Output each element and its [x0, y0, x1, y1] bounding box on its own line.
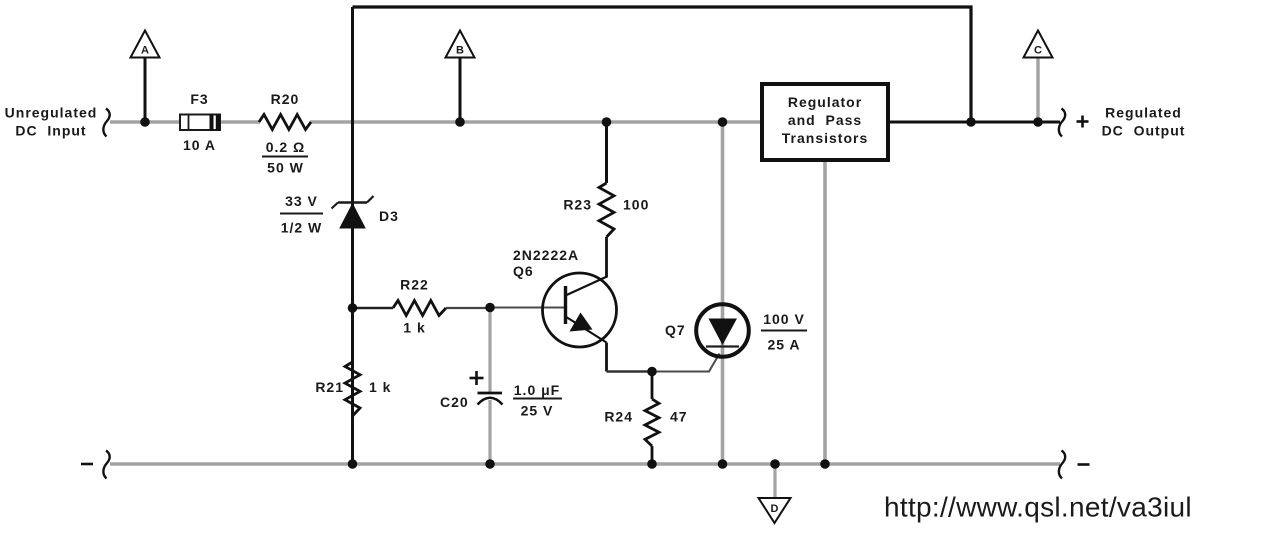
wire: node B drop to positive rail: [459, 57, 462, 122]
svg-text:R23: R23: [563, 197, 592, 213]
svg-text:F3: F3: [190, 91, 208, 107]
svg-text:47: 47: [670, 409, 688, 425]
junction: feedback loop at output: [966, 117, 976, 127]
zener diode D3: [332, 196, 374, 228]
svg-text:Q6: Q6: [513, 263, 534, 279]
svg-text:Regulator: Regulator: [788, 94, 862, 110]
wire: unregulated input rail (gray) from input connector to fuse: [110, 120, 180, 124]
svg-text:R20: R20: [271, 91, 300, 107]
bottom-left break symbol: [103, 451, 109, 479]
regulator block U: Regulator and Pass Transistors: [762, 84, 888, 160]
svg-text:1 k: 1 k: [369, 379, 391, 395]
junction: C20 bottom on negative rail: [485, 459, 495, 469]
junction: SCR cathode on negative rail: [718, 459, 728, 469]
svg-text:DC Input: DC Input: [15, 123, 86, 139]
svg-text:25 A: 25 A: [767, 337, 800, 353]
node B flag: [446, 31, 475, 58]
wire: positive rail to R23: [605, 122, 608, 183]
label: Regulated DC Output: [1102, 105, 1186, 139]
svg-text:1.0 μF: 1.0 μF: [514, 382, 560, 398]
wire: SCR anode/cathode vertical from positive rail to negative rail (gray): [721, 122, 725, 464]
wire: node C drop to output rail (gray): [1036, 58, 1039, 122]
wire: emitter node to R24: [651, 372, 654, 400]
svg-text:100: 100: [623, 197, 649, 213]
wire: fuse to R20 (gray): [220, 120, 260, 124]
wire: main positive rail R20 to regulator box (gray): [310, 120, 762, 124]
svg-text:C20: C20: [440, 394, 469, 410]
svg-text:2N2222A: 2N2222A: [513, 247, 579, 263]
junction: R24 bottom on negative rail: [647, 459, 657, 469]
junction: emitter/R24/gate node: [647, 367, 657, 377]
output break symbol: [1059, 109, 1065, 137]
svg-text:50 W: 50 W: [267, 160, 304, 176]
svg-text:and Pass: and Pass: [788, 112, 862, 128]
svg-text:B: B: [456, 45, 464, 57]
resistor R24: [645, 399, 659, 446]
resistor R23: [599, 183, 614, 237]
svg-text:Transistors: Transistors: [782, 130, 868, 146]
svg-text:25 V: 25 V: [521, 403, 554, 419]
label: + output: [1077, 116, 1089, 128]
junction: regulator ground on negative rail: [820, 459, 830, 469]
input break symbol: [103, 109, 109, 137]
wire: Q6 emitter down: [605, 343, 608, 372]
svg-text:R21: R21: [315, 379, 344, 395]
value label 100 V / 25 A: [761, 311, 807, 353]
svg-text:0.2 Ω: 0.2 Ω: [266, 139, 306, 155]
value label 1.0 uF / 25 V: [513, 382, 562, 419]
junction: R21 bottom on negative rail: [348, 459, 358, 469]
wire: node D3/R21 to R22: [353, 307, 394, 309]
bottom-right break symbol: [1059, 451, 1065, 479]
junction: node D on negative rail: [770, 459, 780, 469]
junction: input node A: [140, 117, 150, 127]
wire: regulator box output to regulated output connector (black): [888, 121, 1060, 124]
svg-text:http://www.qsl.net/va3iul: http://www.qsl.net/va3iul: [884, 492, 1192, 523]
svg-text:R24: R24: [604, 409, 633, 425]
junction: node B on positive rail: [455, 117, 465, 127]
label: - output: [1078, 463, 1090, 466]
node A flag: [131, 31, 160, 58]
wire: gate lead to SCR Q7 (thin): [652, 354, 720, 372]
capacitor C20: [470, 308, 503, 464]
svg-text:DC Output: DC Output: [1102, 123, 1186, 139]
wire: R24 to negative rail: [651, 446, 654, 464]
svg-text:10 A: 10 A: [183, 137, 216, 153]
svg-text:100 V: 100 V: [763, 311, 805, 327]
wire: R22 to C20/base node: [446, 307, 490, 309]
transistor Q6: [543, 273, 617, 347]
svg-text:1/2 W: 1/2 W: [281, 220, 323, 236]
wire: base node to Q6 base (thin): [490, 307, 564, 309]
junction: R23 top on positive rail: [602, 117, 612, 127]
fuse F3: [180, 114, 220, 131]
label: - input: [81, 463, 93, 466]
wire: negative bottom rail (gray): [110, 462, 1060, 466]
svg-text:Regulated: Regulated: [1105, 105, 1182, 121]
resistor R21: [345, 362, 360, 416]
junction: node C on output rail: [1033, 117, 1043, 127]
svg-text:33 V: 33 V: [285, 193, 318, 209]
wire: D3/R21 branch vertical: [351, 7, 354, 464]
value label 0.2 ohm / 50 W: [262, 139, 308, 176]
node D flag: [759, 464, 791, 523]
svg-text:D3: D3: [379, 208, 399, 224]
resistor R20: [259, 115, 311, 130]
junction: D3/R21/R22 node: [348, 303, 358, 313]
wire: regulator box ground lead to negative rail (gray): [823, 160, 827, 464]
node C flag: [1024, 31, 1053, 58]
svg-text:D: D: [771, 503, 779, 515]
junction: C20/base node: [485, 303, 495, 313]
junction: SCR anode on positive rail: [718, 117, 728, 127]
svg-text:Q7: Q7: [665, 322, 686, 338]
SCR Q7: [696, 304, 749, 357]
svg-text:R22: R22: [400, 277, 429, 293]
svg-text:C: C: [1034, 45, 1042, 57]
svg-text:1 k: 1 k: [403, 320, 425, 336]
resistor R22: [393, 301, 446, 316]
wire: node A drop to input rail: [144, 57, 147, 122]
wire: top feedback loop from node above D3 to output junction: [353, 7, 972, 122]
label: Unregulated DC Input: [5, 105, 98, 139]
wire: Q6 emitter to R24 node: [607, 370, 653, 372]
value label 33 V / 1/2 W: [280, 193, 323, 236]
svg-text:A: A: [141, 45, 149, 57]
svg-text:Unregulated: Unregulated: [5, 105, 98, 121]
wire: R23 to Q6 collector: [605, 237, 608, 278]
